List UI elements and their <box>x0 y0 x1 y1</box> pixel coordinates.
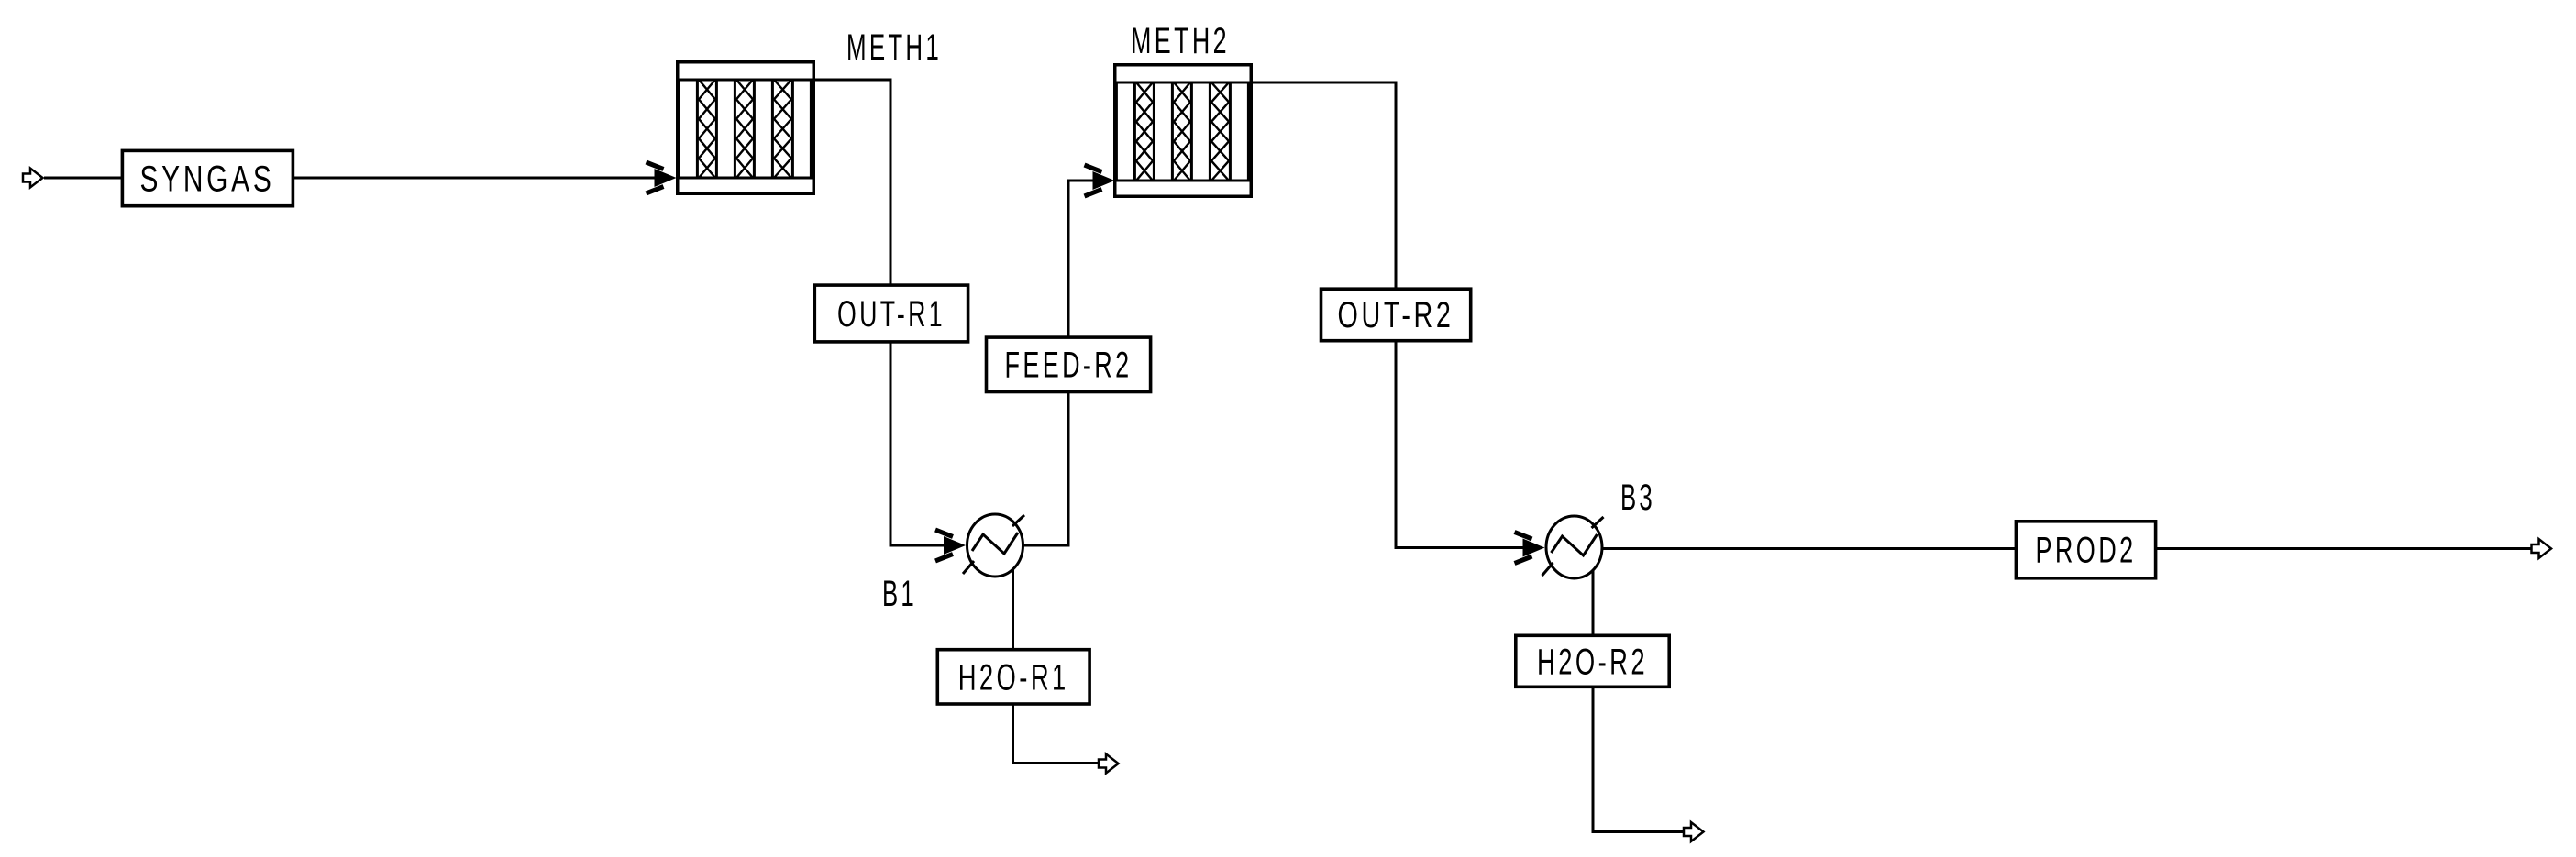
wire OUT-R2: METH2 to B3 <box>1251 82 1538 548</box>
svg-text:B1: B1 <box>882 574 917 614</box>
svg-text:PROD2: PROD2 <box>2036 531 2137 571</box>
svg-text:FEED-R2: FEED-R2 <box>1005 346 1133 386</box>
svg-text:H2O-R2: H2O-R2 <box>1537 643 1648 683</box>
stream label box OUT-R2 <box>1321 289 1471 341</box>
svg-text:METH2: METH2 <box>1131 21 1230 61</box>
wire H2O-R1: B1 bottom outlet <box>1013 547 1100 764</box>
heater B1 <box>963 514 1024 577</box>
arrowhead into B3 <box>1515 533 1545 564</box>
reactor METH1 <box>678 62 814 194</box>
svg-text:OUT-R2: OUT-R2 <box>1338 295 1454 335</box>
stream label box SYNGAS <box>122 150 293 205</box>
svg-text:OUT-R1: OUT-R1 <box>837 294 945 335</box>
stream label box H2O-R1 <box>937 650 1089 704</box>
wire SYNGAS inlet <box>44 177 121 180</box>
stream label box FEED-R2 <box>987 337 1151 391</box>
svg-text:H2O-R1: H2O-R1 <box>958 658 1069 698</box>
product arrow glyph PROD2 <box>2532 539 2552 558</box>
svg-text:METH1: METH1 <box>846 27 942 68</box>
svg-text:SYNGAS: SYNGAS <box>140 159 275 200</box>
arrowhead into B1 <box>935 530 966 561</box>
wire OUT-R1: METH1 to B1 <box>813 80 958 545</box>
arrowhead into METH2 <box>1085 165 1115 196</box>
product arrow glyph H2O-R2 <box>1684 822 1704 841</box>
stream label box H2O-R2 <box>1516 635 1669 687</box>
svg-text:B3: B3 <box>1620 478 1655 518</box>
wire PROD2: B3 to right edge <box>1600 547 2532 550</box>
wire FEED-R2: B1 to METH2 <box>1020 181 1107 545</box>
stream label box OUT-R1 <box>814 285 967 342</box>
heater B3 <box>1542 516 1604 578</box>
wire SYNGAS to METH1 <box>293 177 671 180</box>
product arrow glyph H2O-R1 <box>1099 754 1119 774</box>
wire H2O-R2: B3 bottom outlet <box>1593 549 1686 832</box>
arrowhead into METH1 <box>647 162 677 193</box>
feed source arrow glyph <box>23 169 43 188</box>
stream label box PROD2 <box>2016 522 2155 578</box>
reactor METH2 <box>1115 65 1252 197</box>
